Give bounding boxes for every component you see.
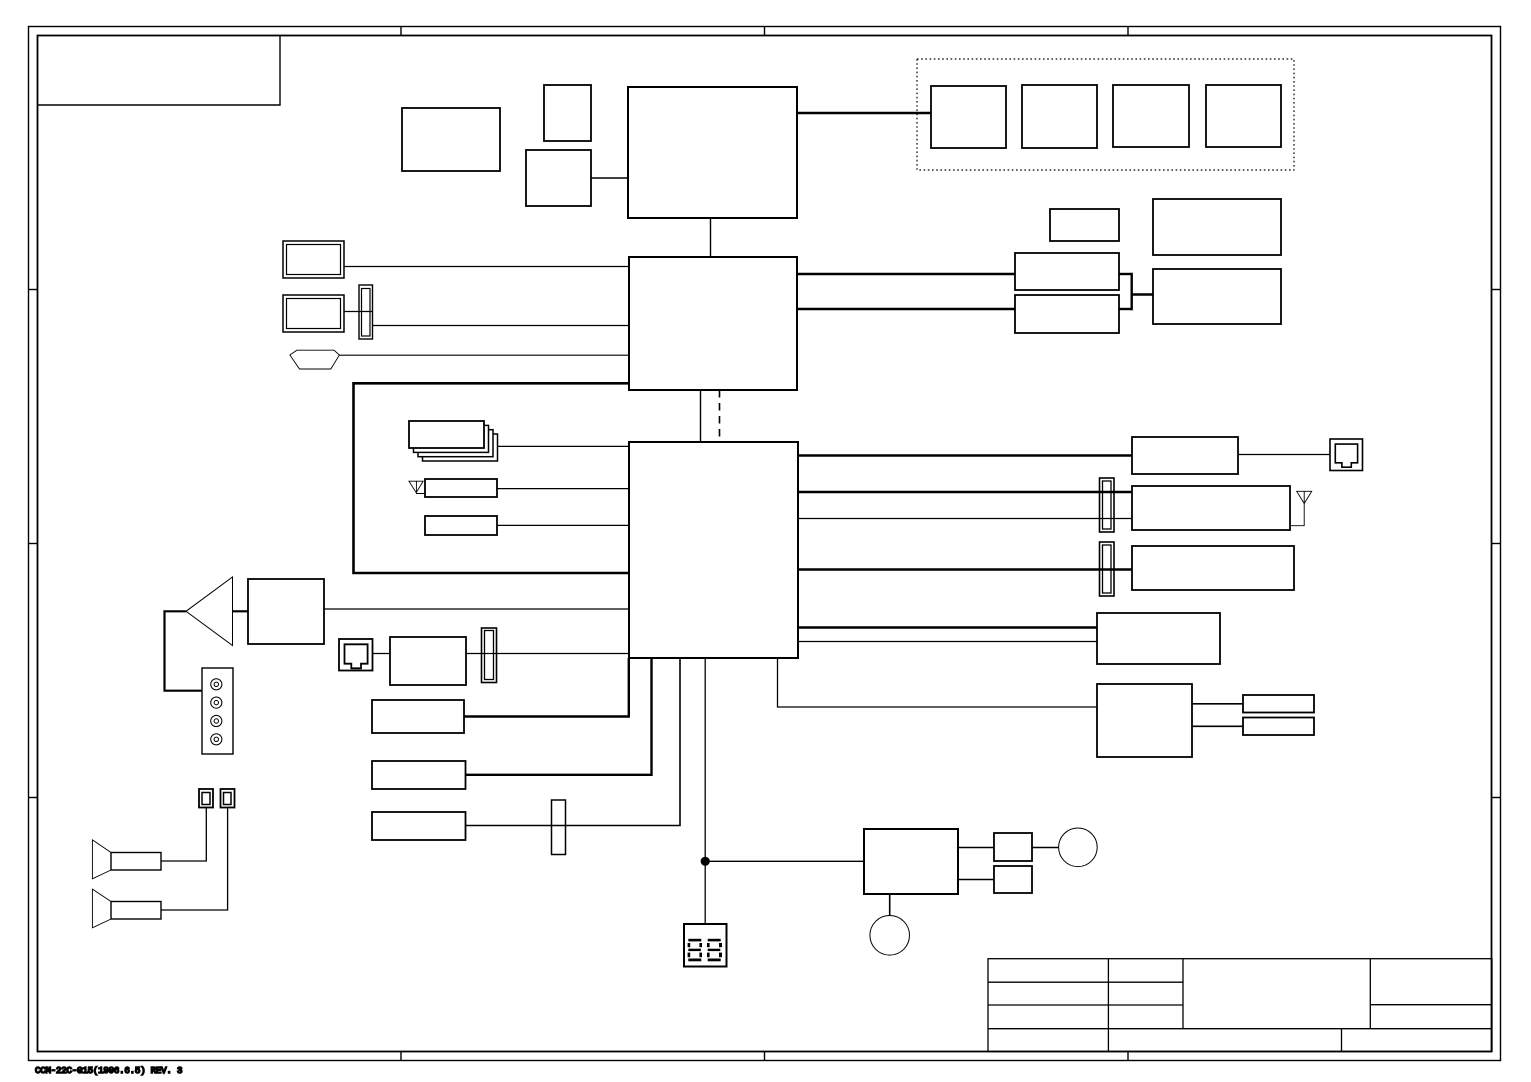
block out2: [1243, 718, 1314, 736]
block rect below tuner: [425, 516, 497, 535]
wire hexagon to U5: [339, 354, 629, 356]
wire KEY1 to U6: [464, 658, 629, 717]
block U2 small top: [402, 108, 500, 171]
wire CN1 to U5: [373, 325, 630, 327]
speaker SP1: [92, 840, 161, 879]
double box J2: [283, 295, 344, 332]
wire papers to U6: [498, 445, 630, 447]
wire U1 to memory row (thick): [797, 112, 931, 115]
wire junction to power box: [705, 860, 864, 862]
wire U5 to boxC thick: [797, 273, 1015, 276]
zone tick left 3: [29, 797, 38, 799]
block wireless box: [1132, 486, 1290, 530]
wire box to CN2 to U6: [466, 653, 629, 655]
double box J1: [283, 241, 344, 278]
connector CN5: [1100, 542, 1115, 596]
speaker SP2: [92, 889, 161, 928]
block power supply: [864, 829, 958, 894]
zone tick right 1: [1492, 289, 1501, 291]
wire fuse1 to plug circle: [1032, 847, 1059, 849]
block boxA small: [1050, 209, 1119, 241]
node junction dot: [701, 857, 710, 866]
zone tick top 2: [764, 27, 766, 36]
wire U6 to video box thin: [798, 641, 1097, 643]
connector CN3 inline: [552, 800, 566, 855]
block out1: [1243, 695, 1314, 713]
zone tick right 2: [1492, 543, 1501, 545]
wire U5 to U6 dashed: [719, 390, 721, 442]
wire RJ45 to box: [373, 653, 391, 655]
block RJ45 interface box: [390, 637, 466, 685]
RJ45 jack right: [1330, 439, 1363, 471]
wire power to fuse2: [958, 879, 994, 881]
block boxB: [1153, 199, 1281, 255]
block M4: [1206, 85, 1281, 147]
plug circle right: [1059, 828, 1098, 867]
block M2: [1022, 85, 1097, 148]
wire deflection to out2: [1192, 725, 1243, 727]
amp triangle: [186, 577, 233, 646]
block KEY1 (left of U6 bottom): [372, 700, 464, 733]
wire J2 to connector CN1: [344, 311, 373, 313]
wire amp to RCA block (thick L): [165, 611, 203, 690]
block U1 top large: [628, 87, 797, 218]
zone tick left 2: [29, 543, 38, 545]
papers stack: [409, 421, 498, 461]
connector CN2: [482, 628, 497, 683]
wire rect to U6: [497, 524, 629, 526]
block LAN box: [1132, 437, 1238, 474]
title block: [988, 959, 1492, 1052]
zone tick right 3: [1492, 797, 1501, 799]
pin P2: [221, 789, 235, 808]
block fuse1: [994, 833, 1032, 861]
wire KEY2 to U6: [466, 658, 652, 775]
wire KEY3 to U6: [466, 658, 681, 826]
zone tick top 3: [1127, 27, 1129, 36]
block fuse2: [994, 866, 1032, 893]
connector CN4: [1100, 478, 1115, 532]
wire U5 to U6 solid: [700, 390, 702, 442]
connector CN1: [359, 285, 373, 339]
wire U6 to deflection box: [778, 658, 1098, 707]
zone tick bottom 1: [400, 1052, 402, 1061]
block video box: [1097, 613, 1220, 664]
wire amp to audio box: [233, 610, 249, 612]
wire U1 bottom to U5: [710, 218, 712, 257]
antenna small left: [409, 481, 425, 493]
wire tuner to U6: [497, 488, 629, 490]
bus wire U5 to U6 (thick L): [354, 383, 630, 573]
wire U6 to video box thick: [798, 626, 1097, 629]
RCA jack block: [202, 668, 233, 754]
block tuner rect: [425, 479, 497, 497]
zone tick top 1: [400, 27, 402, 36]
wire LAN box to RJ45 right: [1238, 454, 1330, 456]
wire U6 to CN5 thick: [798, 568, 1132, 571]
block audio box: [248, 579, 324, 644]
node flag hexagon: [290, 350, 340, 369]
wire U6 to CN4 thick: [798, 491, 1132, 494]
svg-text:CCM-22C-G15(1996.6.5) REV. 3: CCM-22C-G15(1996.6.5) REV. 3: [35, 1065, 182, 1076]
wire U5 to boxD thick: [797, 308, 1015, 311]
block boxE: [1153, 269, 1281, 324]
wire audio box to U6: [324, 608, 629, 610]
block U3 small upper: [544, 85, 591, 141]
zone tick left 1: [29, 289, 38, 291]
pin P1: [199, 789, 213, 808]
wire U6 to LAN box (thick): [798, 454, 1132, 457]
block KEY2: [372, 761, 466, 789]
wire SP2 to P2: [161, 808, 228, 911]
wire power to fuse1: [958, 847, 994, 849]
circle below power: [870, 916, 910, 956]
wire U6 to CN4 thin: [798, 518, 1132, 520]
antenna right: [1290, 491, 1312, 525]
block M3: [1113, 85, 1189, 147]
block boxD: [1015, 295, 1119, 333]
title strip top-left: [38, 36, 281, 106]
zone tick bottom 2: [764, 1052, 766, 1061]
wire deflection to out1: [1192, 703, 1243, 705]
RJ45 jack left: [339, 639, 373, 671]
block M1: [931, 86, 1006, 148]
block deflection box: [1097, 684, 1192, 757]
wire J1 to U5: [344, 266, 629, 268]
block U6 main large: [629, 442, 798, 658]
wire power to circle below: [889, 894, 891, 916]
block second wireless box: [1132, 546, 1294, 590]
block U4 small lower: [526, 150, 591, 206]
display 7-segment box: [684, 924, 727, 967]
block U5 middle large: [629, 257, 797, 390]
dotted group enclosure: [917, 59, 1294, 170]
wire U4 to U1: [591, 177, 628, 179]
wire SP1 to P1: [161, 808, 206, 862]
wire bracket C-D to boxE: [1119, 273, 1153, 311]
wire U6 to display: [704, 658, 706, 924]
block KEY3: [372, 812, 466, 840]
zone tick bottom 3: [1127, 1052, 1129, 1061]
block boxC: [1015, 253, 1119, 290]
